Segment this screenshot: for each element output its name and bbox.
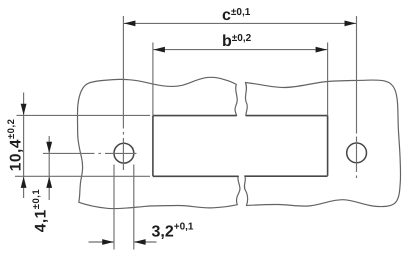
- dimension b: dimension line with arrowheads: [153, 47, 328, 53]
- dimension 10,4: dimension line with arrowheads: [21, 93, 27, 199]
- left hole vertical centerline / extension for dimension c: [122, 16, 124, 170]
- dimension b: extension lines: [153, 43, 328, 116]
- svg-text:4,1±0,1: 4,1±0,1: [31, 189, 49, 233]
- right hole vertical centerline / extension for dimension c: [356, 16, 358, 178]
- dimension 3,2: dimension line with outside arrowheads: [89, 239, 157, 245]
- mounting hole left (Ø3,2): [114, 143, 134, 163]
- svg-text:3,2+0,1: 3,2+0,1: [152, 222, 194, 241]
- dimension 3,2: extension lines (hole tangents): [114, 165, 134, 250]
- mounting hole right: [347, 143, 367, 163]
- svg-text:10,4±0,2: 10,4±0,2: [6, 119, 24, 172]
- cutout rectangle edges (visible edge line weight): [153, 116, 328, 177]
- dimension 4,1: dimension line with arrowheads: [46, 136, 52, 200]
- svg-text:c±0,1: c±0,1: [222, 7, 251, 24]
- left hole horizontal centerline / extension for dimension 4,1: [43, 152, 137, 154]
- dimension c: dimension line with arrowheads: [123, 21, 356, 27]
- panel left piece outline (wavy break edges + tear lines): [77, 77, 239, 208]
- dimension 10,4: horizontal extension lines (cutout top and bottom): [15, 115, 150, 176]
- svg-text:b±0,2: b±0,2: [222, 33, 252, 50]
- panel right piece outline (wavy break edges + tear lines): [244, 80, 400, 207]
